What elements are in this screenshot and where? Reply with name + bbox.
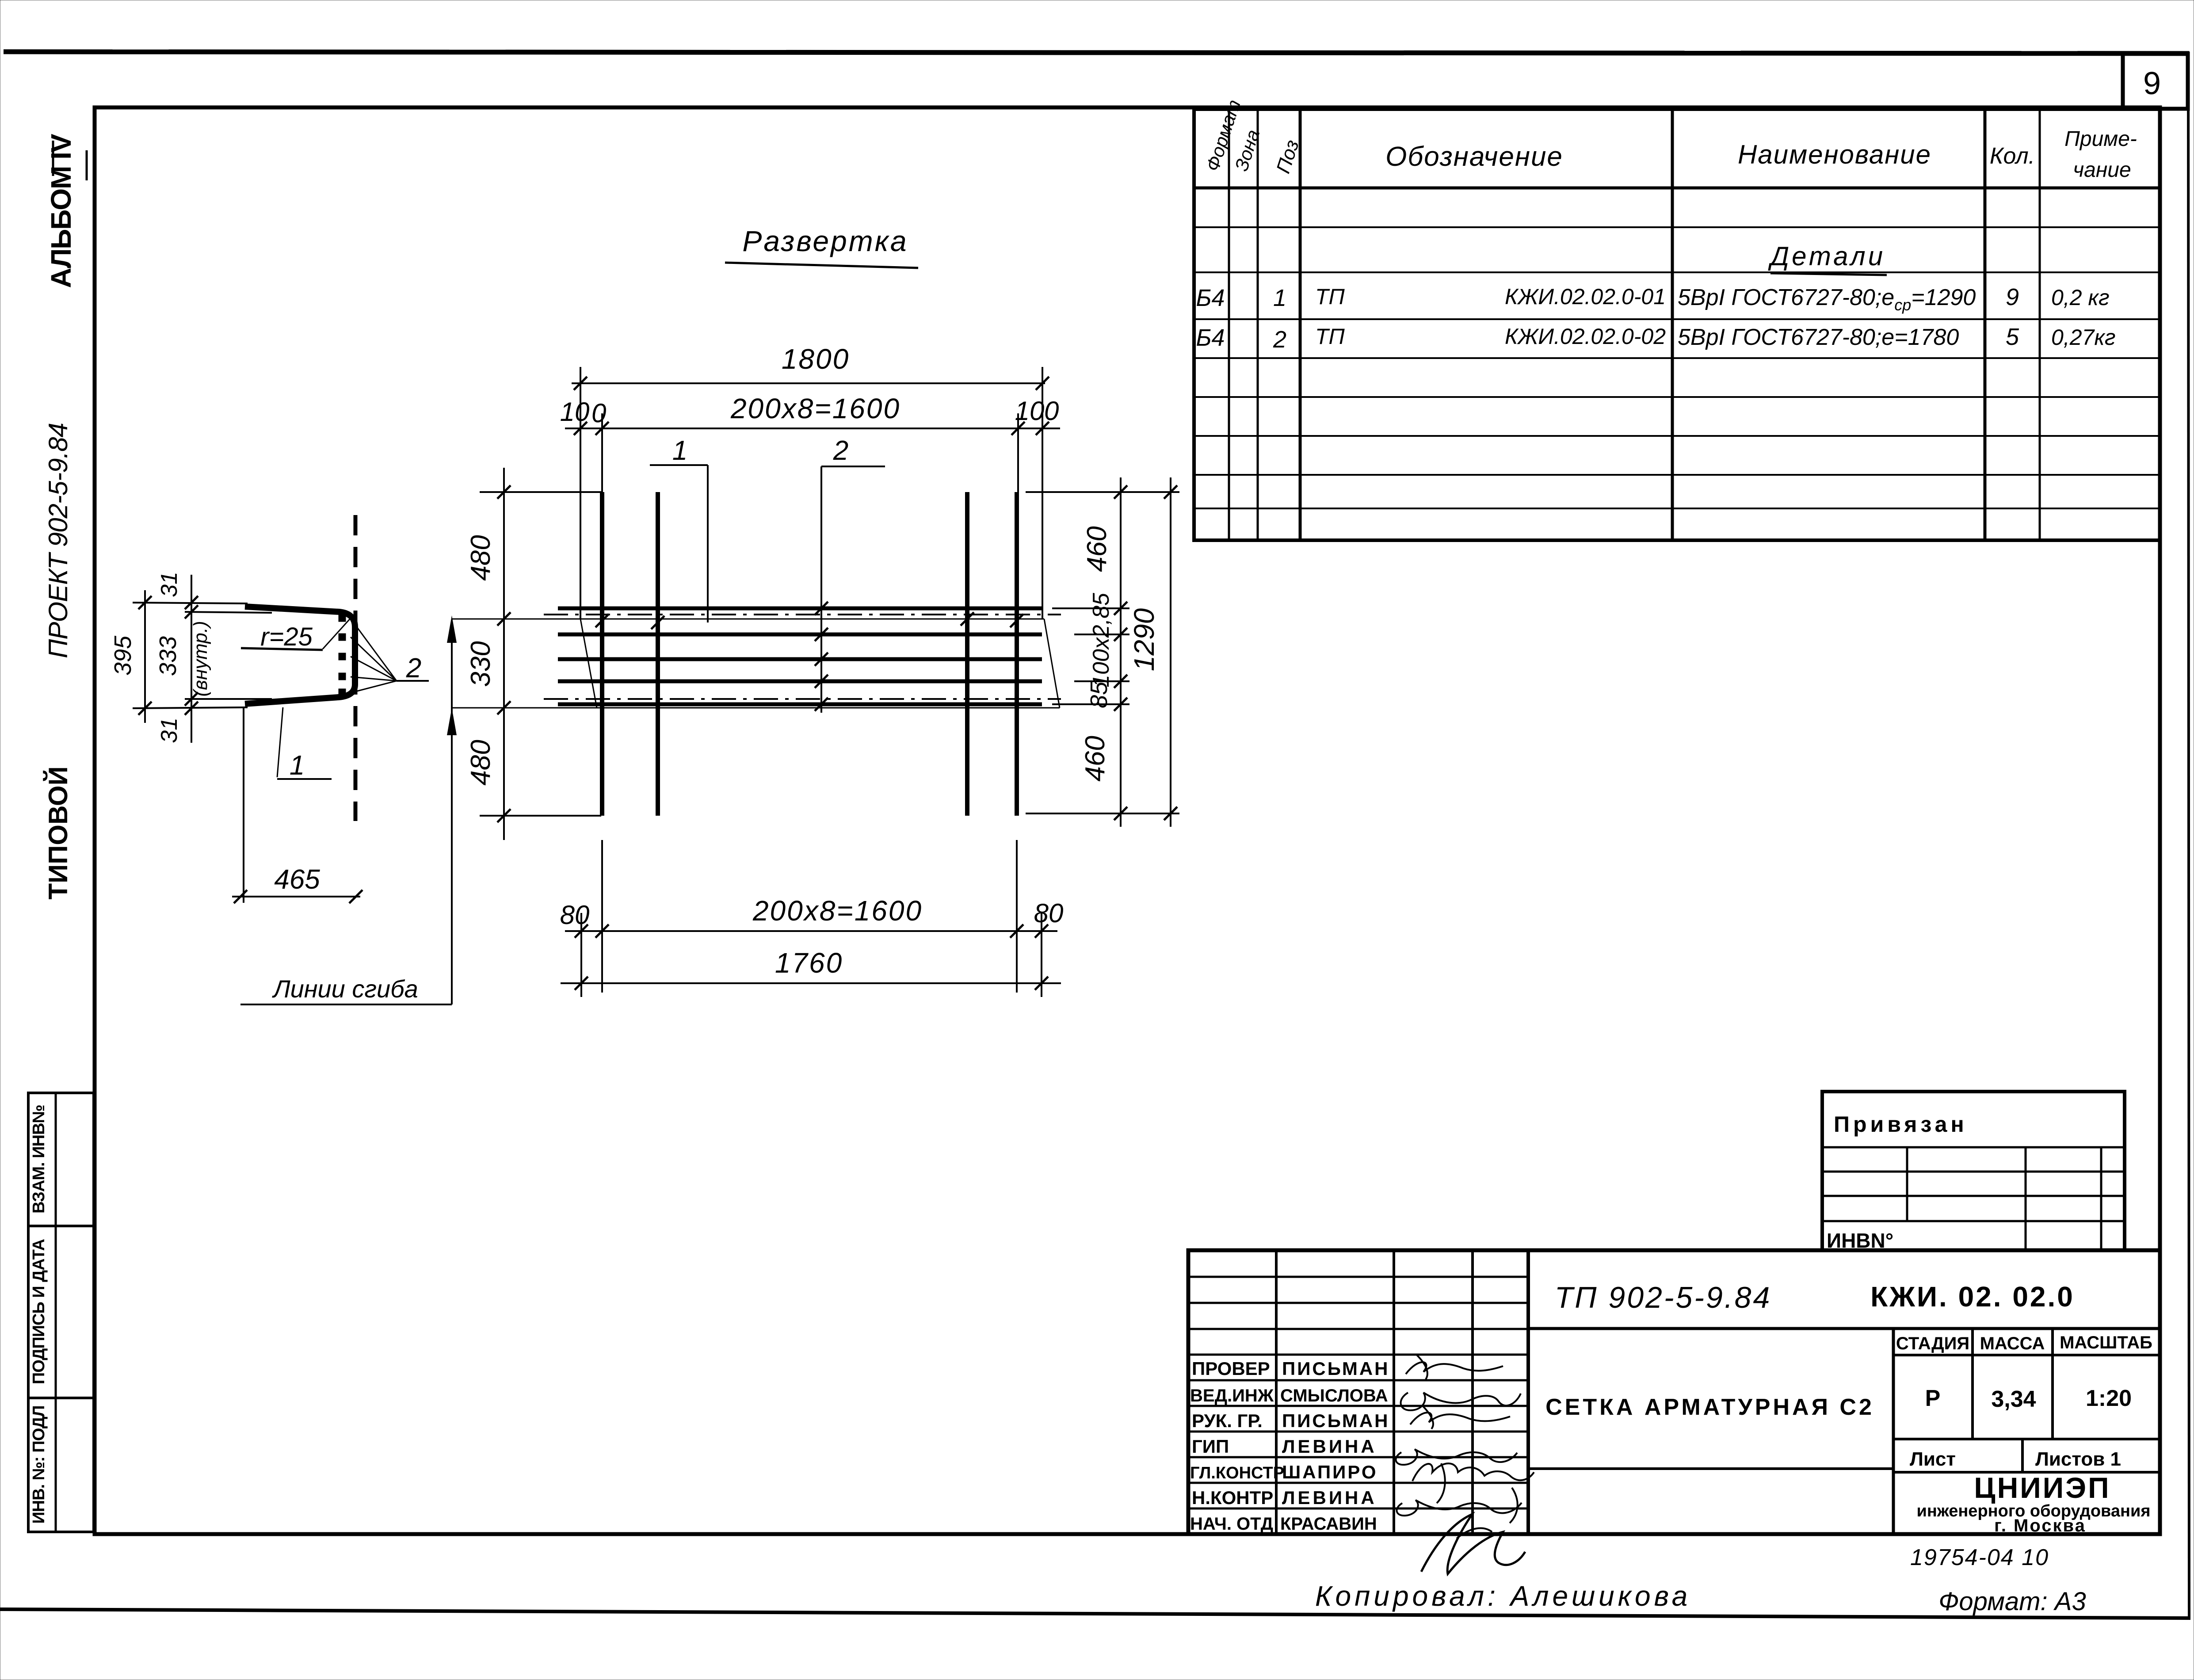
mesh horizontal wire 2 <box>558 633 1042 637</box>
drawing frame <box>95 107 2160 1534</box>
wire cross-section dots <box>339 615 346 622</box>
svg-text:АЛЬБОМ IV: АЛЬБОМ IV <box>45 134 77 288</box>
svg-text:чание: чание <box>2073 158 2131 182</box>
svg-text:31: 31 <box>156 572 182 597</box>
mesh vertical bar 2 <box>656 492 660 816</box>
Привязан column lines <box>1906 1147 1908 1221</box>
svg-text:460: 460 <box>1080 736 1110 781</box>
svg-text:ГИП: ГИП <box>1192 1436 1229 1457</box>
svg-text:ТП: ТП <box>1315 324 1345 349</box>
svg-text:ПРОЕКТ 902-5-9.84: ПРОЕКТ 902-5-9.84 <box>43 423 73 658</box>
svg-text:ПРОВЕР: ПРОВЕР <box>1192 1358 1270 1379</box>
svg-text:r=25: r=25 <box>260 622 313 651</box>
svg-text:ВЗАМ. ИНВ№: ВЗАМ. ИНВ№ <box>30 1105 48 1214</box>
svg-text:0: 0 <box>1044 396 1059 426</box>
svg-text:Привязан: Привязан <box>1834 1112 1968 1137</box>
svg-text:Н.КОНТР: Н.КОНТР <box>1192 1487 1273 1508</box>
extension line right outer <box>1042 367 1043 619</box>
extension bottom left <box>480 815 601 817</box>
signature Смыслова <box>1401 1393 1521 1410</box>
svg-text:Лист: Лист <box>1910 1448 1956 1470</box>
svg-text:ЛЕВИНА: ЛЕВИНА <box>1282 1487 1377 1508</box>
svg-text:19754-04 10: 19754-04 10 <box>1910 1545 2049 1570</box>
svg-text:МАССА: МАССА <box>1980 1334 2045 1353</box>
mesh horizontal wire 3 <box>558 657 1042 661</box>
bottom extension outer right <box>1041 913 1042 997</box>
signature Красавин (large, overflowing) <box>1421 1514 1525 1574</box>
right total dimension line 1290 <box>1170 477 1171 827</box>
svg-text:395: 395 <box>110 635 136 676</box>
svg-text:КЖИ. 02. 02.0: КЖИ. 02. 02.0 <box>1870 1281 2075 1313</box>
svg-text:(внутр.): (внутр.) <box>190 621 211 696</box>
right extension wire5 <box>1052 703 1129 705</box>
bottom extension bar1 <box>601 840 603 993</box>
svg-text:1800: 1800 <box>782 343 850 375</box>
Привязан table frame <box>1822 1092 2125 1250</box>
svg-text:1: 1 <box>1273 285 1286 311</box>
svg-text:Детали: Детали <box>1768 241 1885 271</box>
svg-text:Р: Р <box>1925 1386 1941 1411</box>
svg-text:10: 10 <box>1015 396 1045 426</box>
svg-text:9: 9 <box>2006 284 2019 310</box>
СТАДИЯ block <box>1892 1329 1895 1534</box>
signature Письман 2 <box>1410 1413 1510 1424</box>
mesh vertical bar 1 <box>600 492 604 816</box>
Лист row <box>2021 1439 2024 1472</box>
svg-text:200х8=1600: 200х8=1600 <box>752 895 923 927</box>
signature Шапиро <box>1412 1463 1534 1481</box>
title block left column lines <box>1275 1250 1278 1534</box>
svg-text:85: 85 <box>1086 681 1112 708</box>
svg-text:1760: 1760 <box>775 947 843 979</box>
svg-text:РУК. ГР.: РУК. ГР. <box>1192 1410 1263 1431</box>
values row bottom <box>1893 1438 2160 1440</box>
svg-text:2: 2 <box>1273 326 1286 353</box>
svg-text:Б4: Б4 <box>1196 325 1225 351</box>
svg-text:465: 465 <box>274 864 320 895</box>
svg-text:31: 31 <box>156 718 182 743</box>
overline of IV <box>52 141 54 176</box>
svg-text:Приме-: Приме- <box>2064 127 2137 151</box>
svg-text:0,2 кг: 0,2 кг <box>2051 285 2110 310</box>
right extension wire2 <box>1074 634 1129 635</box>
right extension wire4 <box>1074 680 1129 682</box>
svg-text:Формат: А3: Формат: А3 <box>1938 1587 2086 1616</box>
bent mesh profile <box>245 607 355 704</box>
svg-text:5: 5 <box>2006 324 2019 350</box>
signature Левина 2 <box>1397 1500 1522 1516</box>
svg-text:ГЛ.КОНСТР: ГЛ.КОНСТР <box>1190 1464 1284 1482</box>
sheet top edge line <box>4 52 2189 53</box>
title block outer frame <box>1188 1250 2160 1534</box>
section inner dimension line 31/333/31 <box>191 575 192 743</box>
sheet bottom edge line <box>0 1609 2190 1618</box>
svg-text:СТАДИЯ: СТАДИЯ <box>1896 1334 1969 1353</box>
right extension wire1 <box>1052 607 1129 609</box>
svg-text:ПИСЬМАН: ПИСЬМАН <box>1282 1410 1390 1431</box>
svg-text:80: 80 <box>560 900 590 930</box>
svg-text:9: 9 <box>2143 66 2161 101</box>
svg-text:ТП: ТП <box>1315 284 1345 309</box>
spec row lines <box>1194 226 2160 228</box>
svg-text:100х2,85: 100х2,85 <box>1088 592 1114 687</box>
svg-text:ТИПОВОЙ: ТИПОВОЙ <box>43 766 73 899</box>
Привязан header bottom <box>1822 1146 2125 1149</box>
fold chain line top <box>544 614 1061 615</box>
spec col Поз <box>1299 109 1302 540</box>
mesh horizontal wire 5 <box>558 703 1042 706</box>
svg-text:480: 480 <box>466 740 496 785</box>
section outer dimension line 395 <box>144 590 146 723</box>
svg-text:460: 460 <box>1082 526 1112 572</box>
svg-text:5ВрI ГОСТ6727-80;е=1780: 5ВрI ГОСТ6727-80;е=1780 <box>1678 325 1959 350</box>
right extension top <box>1026 491 1179 493</box>
stamp box ВЗАМ.ИНВ <box>28 1093 94 1226</box>
svg-text:Копировал: Алешикова: Копировал: Алешикова <box>1315 1580 1691 1612</box>
section label 1 <box>277 707 283 777</box>
specification table frame <box>1194 109 2160 540</box>
page number box <box>2123 53 2188 109</box>
right dimension line 460/85/100x2,85/460 <box>1120 477 1122 827</box>
svg-text:3,34: 3,34 <box>1991 1386 2036 1412</box>
svg-text:5ВрI ГОСТ6727-80;еср=1290: 5ВрI ГОСТ6727-80;еср=1290 <box>1678 285 1976 314</box>
svg-text:ШАПИРО: ШАПИРО <box>1282 1462 1378 1482</box>
mesh horizontal wire 4 <box>558 680 1042 683</box>
development right slant edge <box>1044 619 1060 708</box>
svg-text:480: 480 <box>466 535 496 580</box>
svg-text:ЛЕВИНА: ЛЕВИНА <box>1282 1436 1377 1457</box>
signature Письман 1 <box>1406 1362 1503 1374</box>
spec col Формат <box>1228 109 1230 540</box>
development bottom edge <box>452 707 1060 709</box>
spec col Кол <box>2039 109 2041 540</box>
svg-text:СМЫСЛОВА: СМЫСЛОВА <box>1280 1386 1388 1405</box>
leader slashes on wires <box>815 602 828 615</box>
center cell bottom line <box>1528 1467 1893 1470</box>
svg-text:Линии сгиба: Линии сгиба <box>272 975 418 1003</box>
right extension bottom <box>1026 813 1179 814</box>
title row ТП / КЖИ <box>1528 1327 2160 1330</box>
bottom dimension line 80+1600+80 <box>565 930 1057 932</box>
leader fan to label 2 <box>351 619 397 681</box>
underline of IV <box>86 150 88 180</box>
fold chain line bottom <box>544 698 1061 700</box>
svg-text:330: 330 <box>466 641 496 687</box>
Привязан row lines <box>1822 1171 2125 1173</box>
svg-text:Листов 1: Листов 1 <box>2035 1448 2121 1470</box>
development top edge <box>452 619 1044 620</box>
svg-text:1:20: 1:20 <box>2086 1386 2132 1411</box>
svg-text:Развертка: Развертка <box>742 225 908 257</box>
svg-text:333: 333 <box>155 636 181 676</box>
mesh vertical bar 8 <box>965 492 969 816</box>
development left slant edge <box>580 619 597 708</box>
svg-text:1290: 1290 <box>1128 608 1160 671</box>
svg-text:ВЕД.ИНЖ: ВЕД.ИНЖ <box>1190 1386 1274 1405</box>
mesh vertical bar 9 <box>1015 492 1019 816</box>
svg-text:ТП 902-5-9.84: ТП 902-5-9.84 <box>1555 1281 1772 1314</box>
svg-text:Кол.: Кол. <box>1990 143 2035 169</box>
svg-text:ЦНИИЭП: ЦНИИЭП <box>1974 1471 2110 1504</box>
svg-text:1: 1 <box>672 435 687 466</box>
extension line left wire <box>601 413 603 492</box>
bottom total dimension line 1760 <box>561 982 1061 984</box>
extension line right wire <box>1017 413 1019 492</box>
extension top left <box>480 491 601 493</box>
dimension line 100+1600+100 <box>565 428 1060 429</box>
spec header bottom line <box>1194 187 2160 190</box>
svg-text:ПОДПИСЬ И ДАТА: ПОДПИСЬ И ДАТА <box>30 1239 48 1384</box>
svg-text:МАСШТАБ: МАСШТАБ <box>2060 1333 2152 1352</box>
fold lines pointer <box>451 621 453 1004</box>
section fold axis dashed line <box>354 515 358 821</box>
title block small top rows <box>1188 1276 1528 1278</box>
svg-text:СЕТКА АРМАТУРНАЯ С2: СЕТКА АРМАТУРНАЯ С2 <box>1545 1394 1874 1420</box>
mesh horizontal wire 1 <box>558 607 1042 611</box>
signature Левина 1 <box>1396 1449 1517 1465</box>
dimension line 1800 <box>572 382 1045 384</box>
svg-text:10: 10 <box>560 397 590 427</box>
sheet right edge line <box>2188 52 2189 1617</box>
extension line left outer <box>580 367 581 619</box>
svg-text:ИНВ. №: ПОДЛ: ИНВ. №: ПОДЛ <box>30 1406 48 1524</box>
bottom extension bar9 <box>1016 840 1018 993</box>
svg-text:2: 2 <box>833 435 848 466</box>
spec col Наименование <box>1984 109 1987 540</box>
bottom extension outer left <box>580 913 582 997</box>
stamp box ПОДПИСЬ И ДАТА <box>28 1226 94 1398</box>
svg-text:Обозначение: Обозначение <box>1385 141 1563 172</box>
svg-text:КЖИ.02.02.0-01: КЖИ.02.02.0-01 <box>1505 284 1666 309</box>
fold slashes on bars <box>595 614 609 627</box>
svg-text:НАЧ. ОТД: НАЧ. ОТД <box>1190 1514 1273 1534</box>
svg-text:КЖИ.02.02.0-02: КЖИ.02.02.0-02 <box>1505 324 1666 349</box>
stamp box ИНВ.№ ПОДЛ <box>28 1398 94 1532</box>
dimension 465 <box>232 896 360 897</box>
title block name rows <box>1188 1379 1528 1382</box>
svg-text:Наименование: Наименование <box>1738 140 1931 169</box>
left dimension line 480/330/480 <box>503 468 505 840</box>
svg-text:г. Москва: г. Москва <box>1994 1516 2086 1535</box>
spec col Обозначение <box>1671 109 1674 540</box>
svg-text:0: 0 <box>591 398 606 428</box>
svg-text:200х8=1600: 200х8=1600 <box>730 393 900 424</box>
svg-text:КРАСАВИН: КРАСАВИН <box>1280 1514 1377 1534</box>
section extension lines <box>133 603 248 603</box>
svg-text:ПИСЬМАН: ПИСЬМАН <box>1282 1358 1390 1379</box>
svg-text:2: 2 <box>406 653 421 683</box>
svg-text:0,27кг: 0,27кг <box>2051 325 2116 350</box>
svg-text:1: 1 <box>290 750 305 781</box>
svg-text:80: 80 <box>1034 898 1064 928</box>
svg-text:Б4: Б4 <box>1196 285 1225 311</box>
spec col Зона <box>1257 109 1259 540</box>
